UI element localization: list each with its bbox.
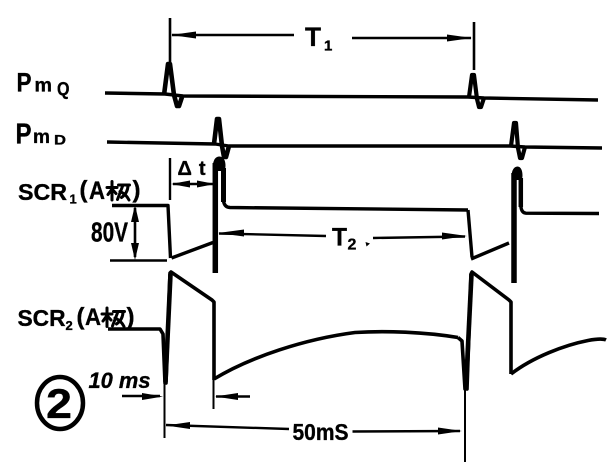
SCR2 dip extension line 2 xyxy=(464,389,466,462)
svg-text:T: T xyxy=(305,22,321,52)
stray dot after T2 xyxy=(366,242,371,247)
80V vertical double arrow xyxy=(134,208,137,257)
svg-text:m: m xyxy=(35,76,53,97)
SCR1 spike 1 rising edge xyxy=(213,163,219,273)
svg-text:1: 1 xyxy=(70,192,77,207)
svg-text:SCR: SCR xyxy=(18,305,66,331)
SCR1 ramp 1 xyxy=(172,243,214,259)
SCR1 spike 2 top blob xyxy=(512,167,523,181)
T1 dimension line right segment with right arrowhead xyxy=(352,37,471,40)
svg-text:): ) xyxy=(127,304,135,331)
svg-text:1: 1 xyxy=(324,38,332,55)
svg-text:Δt: Δt xyxy=(178,158,213,180)
delta-t extension tick xyxy=(169,158,171,200)
svg-text:m: m xyxy=(33,127,50,148)
trace PmQ xyxy=(105,93,598,100)
SCR2 charging curve 1 xyxy=(214,332,458,379)
10ms left arrow xyxy=(122,395,160,397)
svg-text:D: D xyxy=(54,132,66,148)
SCR2 drop extension line xyxy=(213,380,215,409)
svg-text:2: 2 xyxy=(348,237,357,254)
SCR2 heavy rise stroke 2 xyxy=(466,274,472,387)
svg-text:P: P xyxy=(17,68,32,98)
svg-text:A: A xyxy=(89,177,105,205)
50mS dimension right segment with right arrowhead xyxy=(353,430,461,433)
SCR2 dip 2, steep rise, sawtooth top 2, drop 2 xyxy=(458,272,511,389)
PmQ spike 2 xyxy=(469,75,484,107)
trace SCR2 cycle 1: lead line, dip, rise, sawtooth top, drop xyxy=(108,272,214,383)
T2 dimension line xyxy=(219,234,326,237)
svg-text:): ) xyxy=(133,177,141,204)
svg-text:SCR: SCR xyxy=(18,179,67,205)
SCR2 dip extension line 1 xyxy=(164,383,166,438)
svg-text:2: 2 xyxy=(66,318,73,333)
trace PmD xyxy=(107,142,602,148)
SCR1 drop 2 xyxy=(468,210,472,257)
80V bottom extension line xyxy=(110,259,167,262)
PmD spike 1 xyxy=(214,119,229,157)
PmQ spike 1 xyxy=(164,64,182,106)
PmD spike 2 xyxy=(511,123,525,158)
T1 dimension right tick xyxy=(473,22,476,70)
svg-text:Q: Q xyxy=(57,79,70,99)
svg-text:T: T xyxy=(332,224,347,252)
SCR2 heavy rise stroke 1 xyxy=(166,274,171,382)
10ms right arrow xyxy=(216,395,250,397)
SCR1 right line xyxy=(521,206,599,214)
SCR1 spike 1 falling edge xyxy=(221,168,226,202)
svg-text:P: P xyxy=(16,119,32,151)
svg-text:A: A xyxy=(85,304,101,331)
svg-text:50mS: 50mS xyxy=(293,419,349,445)
svg-text:(: ( xyxy=(77,304,85,331)
svg-text:80V: 80V xyxy=(91,217,128,248)
SCR1 spike 2 rising edge xyxy=(511,173,517,283)
SCR1 top line xyxy=(224,201,469,210)
delta-t double arrow xyxy=(173,183,213,185)
SCR1 spike 2 falling edge xyxy=(519,178,524,207)
50mS dimension left segment with left arrowhead xyxy=(166,425,289,429)
trace SCR1 left segment and drop xyxy=(112,206,171,259)
svg-text:10 ms: 10 ms xyxy=(89,368,151,393)
SCR1 ramp 2 xyxy=(471,243,509,259)
T1 dimension line left segment with left arrowhead xyxy=(172,34,294,37)
SCR2 charging curve 2 xyxy=(511,339,606,374)
svg-text:(: ( xyxy=(80,177,88,204)
circled figure number 2 xyxy=(37,377,83,429)
SCR1 spike 1 top blob xyxy=(213,157,226,172)
svg-text:2: 2 xyxy=(46,380,72,427)
T1 dimension left tick xyxy=(169,18,172,62)
